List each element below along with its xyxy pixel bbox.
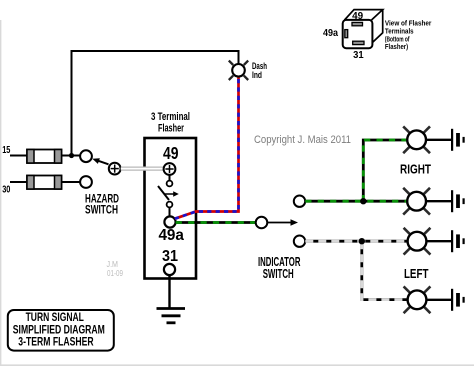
wire: lead 30 to fuse F2	[10, 181, 28, 183]
svg-text:RIGHT: RIGHT	[400, 161, 431, 176]
indicator switch contact (left circuit)	[294, 236, 305, 247]
svg-text:SWITCH: SWITCH	[263, 266, 294, 281]
flasher box U1 outline	[145, 138, 197, 279]
svg-text:Copyright J. Mais 2011: Copyright J. Mais 2011	[254, 134, 351, 146]
fuse F1	[27, 150, 62, 164]
wire: terminal 31 to ground	[168, 275, 170, 309]
indicator switch wiper arrow	[268, 219, 299, 226]
flasher terminal 31	[164, 264, 175, 275]
svg-text:LEFT: LEFT	[404, 266, 429, 281]
indicator switch wiper	[256, 217, 268, 229]
wire: lead 15 to fuse F1	[10, 155, 28, 157]
svg-text:Flasher: Flasher	[158, 123, 184, 135]
fuse F2	[27, 176, 62, 190]
svg-text:01-09: 01-09	[107, 269, 123, 278]
wire: green wire 49a to indicator switch wiper	[176, 221, 256, 224]
svg-text:SIMPLIFIED DIAGRAM: SIMPLIFIED DIAGRAM	[13, 325, 105, 337]
label INDICATOR SWITCH	[258, 254, 301, 281]
wire: green wire right contact to right lamps	[305, 140, 407, 201]
wire: white wire hazard wiper to flasher terminal 49	[121, 167, 164, 171]
svg-text:31: 31	[353, 50, 364, 61]
label J.M 01-09	[107, 260, 124, 278]
junction dot at fuse 15 node	[69, 153, 74, 158]
wire: lamp left rear to ground	[426, 299, 451, 301]
svg-text:30: 30	[2, 184, 10, 196]
ground (left rear)	[452, 289, 464, 311]
ground (right front)	[452, 129, 464, 151]
svg-text:Ind: Ind	[252, 70, 262, 80]
flasher internal contact (upper)	[167, 181, 173, 187]
svg-text:Flasher): Flasher)	[385, 42, 409, 51]
svg-text:15: 15	[2, 144, 10, 156]
indicator switch contact (right circuit)	[294, 196, 305, 207]
hazard switch wiper arm arrow	[92, 158, 108, 164]
ground (flasher 31)	[157, 309, 186, 323]
svg-text:3-TERM FLASHER: 3-TERM FLASHER	[18, 337, 94, 349]
svg-text:TURN SIGNAL: TURN SIGNAL	[26, 312, 84, 324]
ground (left front)	[452, 230, 464, 252]
label View of Flasher Terminals (Bottom of Flasher)	[385, 18, 432, 51]
flasher internal contact (lower)	[167, 202, 173, 208]
svg-text:SWITCH: SWITCH	[85, 205, 118, 217]
ground (right rear)	[452, 190, 464, 212]
svg-text:HAZARD: HAZARD	[85, 193, 119, 205]
wire: white/black wire left contact to left lamps	[305, 241, 408, 299]
hazard switch wiper terminal (+)	[109, 163, 121, 175]
wire: violet/blue wire 49a to dash indicator lamp	[175, 77, 239, 219]
svg-text:49a: 49a	[323, 28, 339, 39]
dash indicator lamp	[229, 61, 248, 80]
flasher view terminal blade 31	[353, 41, 364, 44]
wire: lamp right rear to ground	[426, 200, 451, 202]
wire: stub 49 to switch pivot	[169, 175, 171, 181]
label Dash Ind	[252, 61, 267, 80]
hazard switch contact (bottom)	[80, 176, 92, 188]
flasher terminal 49a	[164, 216, 175, 227]
wire: fuse F1 to hazard contact	[62, 155, 81, 157]
junction dot white net	[359, 238, 365, 244]
flasher internal switch arm	[158, 186, 179, 200]
flasher bottom view 3D body	[343, 10, 383, 49]
hazard switch contact (top)	[80, 150, 92, 162]
wire: stub to terminal 49a	[169, 207, 171, 216]
wire: battery feed from fuse 15 junction up and over to dash lamp	[72, 51, 239, 156]
svg-text:3 Terminal: 3 Terminal	[151, 111, 190, 123]
svg-text:J.M: J.M	[107, 260, 119, 269]
svg-text:49a: 49a	[158, 227, 184, 244]
label HAZARD SWITCH	[85, 193, 119, 216]
svg-text:49: 49	[163, 143, 179, 163]
flasher view terminal blade 49	[352, 22, 363, 25]
lamp right rear	[403, 188, 430, 215]
flasher view terminal blade 49a	[345, 30, 348, 38]
svg-text:31: 31	[162, 248, 178, 265]
junction dot green net	[360, 198, 366, 204]
wire: lamp left front to ground	[426, 240, 451, 242]
wire: fuse F2 to hazard contact (bottom)	[62, 181, 81, 183]
svg-text:49: 49	[352, 11, 364, 22]
lamp left front	[404, 228, 431, 255]
title block TURN SIGNAL SIMPLIFIED DIAGRAM 3-TERM FLASHER	[8, 310, 114, 351]
lamp right front	[403, 126, 430, 153]
flasher terminal 49 (+)	[164, 163, 176, 175]
wire: lamp right front to ground	[426, 139, 451, 141]
lamp left rear	[404, 286, 431, 313]
label 3 Terminal Flasher	[151, 111, 190, 135]
